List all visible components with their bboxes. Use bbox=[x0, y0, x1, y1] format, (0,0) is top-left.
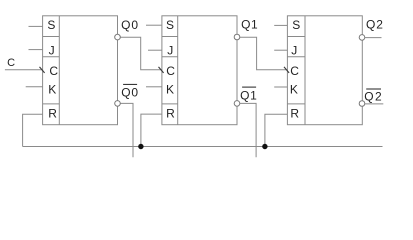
svg-text:Q2: Q2 bbox=[364, 90, 383, 104]
U3 S input stub bbox=[274, 24, 287, 26]
Q2bar output terminal bbox=[359, 101, 365, 107]
svg-text:C: C bbox=[290, 64, 299, 78]
JK flip-flop U3 box bbox=[287, 16, 362, 125]
Q0bar output terminal bbox=[115, 101, 121, 107]
U2 S input stub bbox=[146, 24, 162, 26]
wire Q0bar down past bus bbox=[120, 103, 133, 157]
svg-text:S: S bbox=[47, 18, 55, 32]
wire C input to U1 clock bbox=[5, 69, 43, 71]
svg-text:C: C bbox=[49, 64, 58, 78]
U2 J input stub bbox=[148, 49, 162, 51]
svg-text:Q2: Q2 bbox=[366, 18, 384, 32]
U1 K input stub bbox=[26, 86, 43, 88]
svg-text:S: S bbox=[166, 18, 174, 32]
overline for Q2bar bbox=[366, 88, 381, 90]
svg-text:Q0: Q0 bbox=[121, 18, 139, 32]
wire Q2 output bbox=[365, 37, 381, 39]
svg-text:K: K bbox=[48, 82, 56, 96]
svg-text:Q1: Q1 bbox=[241, 18, 258, 32]
svg-text:J: J bbox=[167, 43, 173, 57]
U1 S input stub bbox=[29, 25, 43, 27]
wire U3 R input to reset bus bbox=[265, 114, 288, 146]
clock slash at U1 C input bbox=[40, 67, 45, 73]
svg-text:K: K bbox=[166, 82, 174, 96]
overline for Q1bar bbox=[242, 86, 256, 88]
svg-text:S: S bbox=[292, 18, 300, 32]
svg-text:R: R bbox=[48, 106, 57, 120]
wire Q1bar down past bus bbox=[240, 103, 256, 157]
U1 J input stub bbox=[29, 49, 43, 51]
U3 K input stub bbox=[274, 86, 287, 88]
wire Q2bar output bbox=[365, 103, 383, 105]
Q1bar output terminal bbox=[234, 101, 240, 107]
svg-text:Q1: Q1 bbox=[240, 88, 257, 102]
svg-text:C: C bbox=[166, 64, 175, 78]
Q2 output terminal bbox=[359, 35, 365, 41]
svg-text:R: R bbox=[166, 106, 175, 120]
overline for Q0bar bbox=[123, 83, 137, 85]
svg-text:J: J bbox=[49, 43, 55, 57]
junction dot Q0bar/reset bus bbox=[138, 144, 143, 149]
JK flip-flop U1 box bbox=[43, 16, 118, 125]
svg-text:J: J bbox=[291, 43, 297, 57]
svg-text:K: K bbox=[290, 82, 298, 96]
wire Q0 to U2 clock bbox=[120, 37, 162, 70]
clock slash at U2 C input bbox=[159, 67, 164, 73]
wire U1 R input to reset bus bbox=[23, 114, 43, 146]
JK flip-flop U2 box bbox=[162, 16, 237, 125]
clock slash at U3 C input bbox=[284, 67, 289, 73]
Q1 output terminal bbox=[234, 34, 240, 40]
Q0 output terminal bbox=[115, 34, 121, 40]
wire Q1 to U3 clock bbox=[240, 37, 288, 70]
reset bus wire bbox=[23, 146, 383, 148]
svg-text:R: R bbox=[290, 106, 299, 120]
wire U2 R input to reset bus bbox=[141, 114, 162, 146]
U3 J input stub bbox=[274, 49, 287, 51]
svg-text:Q0: Q0 bbox=[121, 85, 138, 99]
svg-text:C: C bbox=[7, 57, 15, 69]
U2 K input stub bbox=[146, 86, 162, 88]
junction dot Q1bar/reset bus bbox=[262, 144, 267, 149]
